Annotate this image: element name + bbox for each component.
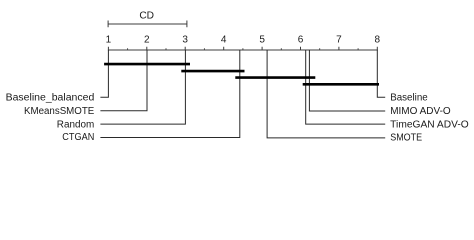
CD interval bracket	[108, 21, 187, 28]
svg-text:CD: CD	[139, 11, 154, 22]
svg-text:7: 7	[336, 35, 342, 46]
svg-text:TimeGAN ADV-O: TimeGAN ADV-O	[390, 119, 469, 130]
clique bar 4 (TimeGAN ADV-O..Baseline)	[303, 83, 379, 86]
svg-text:Baseline: Baseline	[390, 93, 428, 104]
right labels	[390, 93, 469, 144]
clique bar 3 (CTGAN..MIMO ADV-O)	[235, 76, 315, 79]
clique bar 2 (Random..CTGAN)	[181, 70, 244, 73]
svg-text:SMOTE: SMOTE	[390, 133, 422, 144]
connector Random (rank 3.00)	[100, 50, 185, 124]
connector MIMO ADV-O (rank 6.21)	[309, 50, 385, 111]
connector TimeGAN ADV-O (rank 6.12)	[306, 50, 386, 124]
svg-text:MIMO ADV-O: MIMO ADV-O	[390, 106, 451, 117]
svg-text:1: 1	[106, 35, 112, 46]
connector KMeansSMOTE (rank 2.01)	[100, 50, 147, 111]
svg-text:Baseline_balanced: Baseline_balanced	[6, 93, 95, 104]
axis rank numbers	[106, 35, 381, 46]
clique bar 1 (Baseline_balanced..Random)	[104, 63, 190, 66]
connector Baseline (rank 8.00)	[377, 50, 385, 97]
axis line	[108, 49, 378, 51]
connector CTGAN (rank 4.43)	[100, 50, 239, 138]
svg-text:8: 8	[375, 35, 381, 46]
connector Baseline_balanced (rank 1.00)	[100, 50, 108, 97]
left labels	[6, 93, 95, 143]
svg-text:6: 6	[298, 35, 304, 46]
minor ticks	[128, 48, 359, 50]
connector SMOTE (rank 5.13)	[267, 50, 385, 138]
svg-text:4: 4	[221, 35, 227, 46]
svg-text:CTGAN: CTGAN	[62, 132, 94, 143]
svg-text:5: 5	[259, 35, 265, 46]
svg-text:Random: Random	[57, 119, 95, 130]
svg-text:2: 2	[144, 35, 150, 46]
svg-text:KMeansSMOTE: KMeansSMOTE	[24, 106, 95, 117]
major ticks	[108, 47, 377, 50]
svg-text:3: 3	[182, 35, 188, 46]
